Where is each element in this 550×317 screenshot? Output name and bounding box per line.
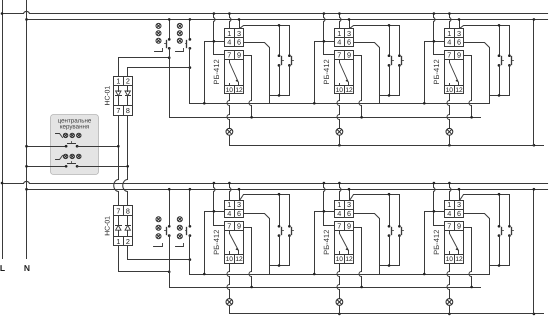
node switch common bar U6 bbox=[490, 265, 510, 267]
svg-text:10: 10 bbox=[336, 256, 344, 263]
wire L-bus drop to relay U1 pins 4/7 bbox=[214, 14, 225, 55]
wire A1 pin1 up to button wire bbox=[119, 58, 170, 77]
wire L-bus drop to relay U2 pins 4/7 bbox=[324, 14, 335, 55]
switch S6a contact bbox=[498, 225, 501, 228]
svg-text:10: 10 bbox=[226, 256, 234, 263]
net L left vertical rail bbox=[2, 1, 4, 259]
wire line1 bottom (control bus) bbox=[190, 274, 490, 276]
svg-text:1: 1 bbox=[337, 29, 341, 38]
switch S4b contact bbox=[288, 225, 291, 228]
svg-text:1: 1 bbox=[447, 200, 451, 209]
wire switch S6a vertical bbox=[499, 195, 501, 227]
wire relay U4 pin 10 to lamp bbox=[227, 264, 230, 299]
lamp HL3 bbox=[446, 128, 453, 135]
wire switch S5a vertical bbox=[389, 195, 391, 227]
lamp HL4 bbox=[226, 299, 233, 306]
wire A2 pin2 down to button wire 2 bbox=[128, 246, 190, 260]
svg-text:3: 3 bbox=[457, 29, 461, 38]
wire lamp HL4 to lamp rail bbox=[229, 306, 231, 314]
push button lamps column SB4 bottom bbox=[177, 217, 182, 239]
wire line2 bottom (buttons return bus) bbox=[170, 287, 481, 289]
wire L-bus drop to relay U3 pins 4/7 bbox=[434, 14, 445, 55]
svg-text:РБ-412: РБ-412 bbox=[322, 230, 331, 255]
wire B2 vertical to line1 bbox=[314, 42, 316, 104]
wire N-bus to relay U4 pin 3 bbox=[239, 190, 241, 201]
node junction pin4 feed U3 bbox=[425, 41, 445, 43]
svg-text:10: 10 bbox=[446, 87, 454, 94]
diode VD3 in A2 bbox=[116, 216, 122, 237]
wire L-bus to relay U2 pin 1 bbox=[340, 14, 341, 29]
wire A1 pin7 down to bottom block (V1) bbox=[114, 116, 119, 206]
block A1 НС-01 top bbox=[114, 77, 133, 116]
wire N-bus to relay U3 pin 3 bbox=[459, 20, 461, 29]
wire relay U2 pin 9 to line2 bbox=[354, 56, 362, 118]
central off push contact bbox=[27, 142, 119, 148]
svg-text:НС-01: НС-01 bbox=[104, 216, 111, 236]
label центральне керування bbox=[58, 117, 92, 130]
wire B5 vertical to line1 bbox=[314, 212, 316, 275]
relay U6 РБ-412 body bbox=[445, 201, 464, 264]
lamp rail bottom bbox=[230, 313, 544, 315]
wire L-bus to relay U5 pin 1 bbox=[340, 184, 341, 201]
wire relay U6 pin 6 to switch bar / line1 bbox=[464, 214, 490, 275]
wire pin3 branch to switches S6 bbox=[460, 195, 510, 227]
wire switch S1a vertical bbox=[279, 26, 281, 56]
relay U4 contact symbol bbox=[230, 231, 239, 255]
svg-text:7: 7 bbox=[227, 51, 231, 60]
switch S2b contact bbox=[398, 54, 401, 57]
relay U4 pin numbers bbox=[226, 200, 243, 263]
wire pin3 branch to switches S2 bbox=[350, 26, 400, 56]
svg-text:4: 4 bbox=[447, 38, 451, 47]
wire switches S5 to common bar bbox=[389, 236, 391, 266]
svg-text:РБ-412: РБ-412 bbox=[212, 59, 221, 84]
wire switches S4 to common bar bbox=[279, 236, 281, 266]
wire L-bus to relay U3 pin 1 bbox=[450, 14, 451, 29]
wire N-bus to relay U6 pin 3 bbox=[459, 190, 461, 201]
svg-text:1: 1 bbox=[337, 200, 341, 209]
svg-text:8: 8 bbox=[126, 206, 130, 215]
wire A2 pin1 down to button wire bbox=[119, 246, 170, 272]
relay U3 РБ-412 body bbox=[445, 29, 464, 94]
relay U6 contact symbol bbox=[450, 231, 459, 255]
node switch common bar U3 bbox=[490, 95, 510, 97]
svg-text:12: 12 bbox=[345, 87, 353, 94]
svg-text:12: 12 bbox=[235, 87, 243, 94]
svg-text:4: 4 bbox=[227, 38, 231, 47]
switch S5a contact bbox=[388, 225, 391, 228]
svg-text:7: 7 bbox=[337, 51, 341, 60]
relay U1 contact symbol bbox=[230, 60, 239, 86]
central on push contact bbox=[27, 162, 128, 168]
wire B6 vertical to line1 bbox=[424, 212, 426, 275]
svg-text:4: 4 bbox=[337, 38, 341, 47]
wire pin3 branch to switches S3 bbox=[460, 26, 510, 56]
svg-text:9: 9 bbox=[457, 221, 461, 230]
node junction pin4 feed U2 bbox=[315, 41, 335, 43]
node switch common bar U5 bbox=[380, 265, 400, 267]
svg-text:1: 1 bbox=[116, 77, 120, 86]
svg-text:9: 9 bbox=[347, 221, 351, 230]
wire bottom L-bus with hop over N rail bbox=[3, 181, 548, 183]
svg-text:12: 12 bbox=[455, 256, 463, 263]
svg-text:9: 9 bbox=[237, 221, 241, 230]
wire lamp HL1 to lamp rail bbox=[229, 136, 231, 146]
relay U5 contact symbol bbox=[340, 231, 349, 255]
relay U5 РБ-412 body bbox=[335, 201, 354, 264]
svg-text:6: 6 bbox=[457, 38, 461, 47]
svg-text:N: N bbox=[24, 263, 30, 273]
wire L-bus drop to relay U5 pins 4/7 bbox=[324, 184, 335, 226]
wire switch S3a vertical bbox=[499, 26, 501, 56]
svg-text:РБ-412: РБ-412 bbox=[322, 59, 331, 84]
wire relay U4 pin 6 to switch bar / line1 bbox=[244, 214, 270, 275]
svg-text:12: 12 bbox=[235, 256, 243, 263]
wire N-bus to relay U2 pin 3 bbox=[349, 20, 351, 29]
lamp rail top bbox=[230, 145, 544, 147]
switch S4a contact bbox=[278, 225, 281, 228]
svg-text:керування: керування bbox=[60, 124, 90, 131]
switch S1b contact bbox=[288, 54, 291, 57]
wire B1 vertical to line1 bbox=[204, 42, 206, 104]
wire relay U5 pin 6 to switch bar / line1 bbox=[354, 214, 380, 275]
wire L-bus drop to relay U6 pins 4/7 bbox=[434, 184, 445, 226]
wire L-bus drop to relay U4 pins 4/7 bbox=[214, 184, 225, 226]
diode VD2 in A1 bbox=[125, 86, 131, 106]
svg-text:2: 2 bbox=[126, 77, 130, 86]
wire B3 vertical to line1 bbox=[424, 42, 426, 104]
relay U4 РБ-412 body bbox=[225, 201, 244, 264]
svg-text:7: 7 bbox=[116, 106, 120, 115]
svg-text:6: 6 bbox=[457, 209, 461, 218]
svg-text:РБ-412: РБ-412 bbox=[432, 230, 441, 255]
wire relay U3 pin 6 to switch bar / line1 bbox=[464, 43, 490, 104]
svg-text:7: 7 bbox=[337, 221, 341, 230]
wire L-bus to relay U1 pin 1 bbox=[230, 14, 231, 29]
relay U1 РБ-412 body bbox=[225, 29, 244, 94]
svg-text:6: 6 bbox=[347, 209, 351, 218]
svg-text:7: 7 bbox=[116, 206, 120, 215]
switch S3a contact bbox=[498, 54, 501, 57]
wire N-bus to relay U1 pin 3 bbox=[239, 20, 241, 29]
svg-text:10: 10 bbox=[446, 256, 454, 263]
wire switches S3 to common bar bbox=[499, 66, 501, 96]
central control box (центральне керування) bbox=[51, 115, 99, 175]
wire relay U2 pin 6 to switch bar / line1 bbox=[354, 43, 380, 104]
push button SB2 wire and contact bbox=[176, 18, 192, 103]
svg-text:РБ-412: РБ-412 bbox=[212, 230, 221, 255]
wire pin3 branch to switches S1 bbox=[240, 26, 290, 56]
lamp HL1 bbox=[226, 128, 233, 135]
wire lamp HL5 to lamp rail bbox=[339, 306, 341, 314]
relay U2 contact symbol bbox=[340, 60, 349, 86]
svg-text:3: 3 bbox=[237, 200, 241, 209]
svg-text:НС-01: НС-01 bbox=[104, 86, 111, 106]
diode VD4 in A2 bbox=[125, 216, 131, 237]
svg-text:1: 1 bbox=[227, 29, 231, 38]
diode VD1 in A1 bbox=[116, 86, 122, 106]
wire relay U5 pin 9 to line2 bbox=[354, 228, 362, 288]
wire relay U6 pin 10 to lamp bbox=[447, 264, 450, 299]
wire relay U2 pin 10 to lamp bbox=[337, 94, 340, 129]
svg-text:2: 2 bbox=[126, 237, 130, 246]
relay U3 pin numbers bbox=[446, 29, 463, 94]
svg-text:3: 3 bbox=[347, 200, 351, 209]
switch S2a contact bbox=[388, 54, 391, 57]
svg-text:4: 4 bbox=[337, 209, 341, 218]
svg-text:8: 8 bbox=[126, 106, 130, 115]
wire bottom N-bus bbox=[27, 189, 548, 191]
wire A1 pin2 up to button wire 2 bbox=[128, 68, 190, 77]
wire L-bus to relay U6 pin 1 bbox=[450, 184, 451, 201]
wire lamp HL3 to lamp rail bbox=[449, 136, 451, 146]
wire top N-bus bbox=[27, 19, 548, 21]
switch S3b contact bbox=[508, 54, 511, 57]
wire relay U6 pin 9 to line2 bbox=[464, 228, 472, 288]
off-command symbol with indicators bbox=[56, 133, 82, 137]
relay U5 pin numbers bbox=[336, 200, 353, 263]
wire top L-bus with hop over N rail bbox=[3, 11, 548, 13]
wire switch S2a vertical bbox=[389, 26, 391, 56]
svg-text:3: 3 bbox=[457, 200, 461, 209]
svg-text:6: 6 bbox=[237, 209, 241, 218]
wire relay U3 pin 9 to line2 bbox=[464, 56, 472, 118]
wire L-bus to relay U4 pin 1 bbox=[230, 184, 231, 201]
svg-text:12: 12 bbox=[455, 87, 463, 94]
wire lamp HL2 to lamp rail bbox=[339, 136, 341, 146]
svg-text:РБ-412: РБ-412 bbox=[432, 59, 441, 84]
svg-text:10: 10 bbox=[336, 87, 344, 94]
svg-text:9: 9 bbox=[237, 51, 241, 60]
node junction pin4 feed U1 bbox=[205, 41, 225, 43]
lamp HL5 bbox=[336, 299, 343, 306]
wire pin3 branch to switches S5 bbox=[350, 195, 400, 227]
wire line2 top (buttons return bus) bbox=[170, 117, 481, 119]
svg-text:1: 1 bbox=[227, 200, 231, 209]
wire relay U1 pin 10 to lamp bbox=[227, 94, 230, 129]
wire relay U3 pin 10 to lamp bbox=[447, 94, 450, 129]
wire B4 vertical to line1 bbox=[204, 212, 206, 275]
svg-text:1: 1 bbox=[447, 29, 451, 38]
on-command symbol with indicators bbox=[56, 154, 82, 159]
relay U6 pin numbers bbox=[446, 200, 463, 263]
svg-text:10: 10 bbox=[226, 87, 234, 94]
wire switches S6 to common bar bbox=[499, 236, 501, 266]
node switch common bar U1 bbox=[270, 95, 290, 97]
svg-text:6: 6 bbox=[237, 38, 241, 47]
net N left vertical rail bbox=[26, 1, 28, 259]
svg-text:7: 7 bbox=[447, 221, 451, 230]
push button SB4 wire and contact bbox=[176, 188, 192, 275]
push button lamps column SB2 top bbox=[177, 23, 182, 43]
svg-text:4: 4 bbox=[447, 209, 451, 218]
wire A1 pin8 down to bottom block (V2) bbox=[123, 116, 128, 206]
wire pin3 branch to switches S4 bbox=[240, 195, 290, 227]
svg-text:9: 9 bbox=[457, 51, 461, 60]
wire relay U4 pin 9 to line2 bbox=[244, 228, 252, 288]
relay U1 pin numbers bbox=[226, 29, 243, 94]
node switch common bar U4 bbox=[270, 265, 290, 267]
wire switches S1 to common bar bbox=[279, 66, 281, 96]
wire relay U1 pin 9 to line2 bbox=[244, 56, 252, 118]
svg-text:3: 3 bbox=[237, 29, 241, 38]
wire N drop right side top bbox=[533, 20, 535, 146]
node junction pin4 feed U4 bbox=[205, 211, 225, 213]
node junction pin4 feed U6 bbox=[425, 211, 445, 213]
wire switches S2 to common bar bbox=[389, 66, 391, 96]
push button lamps column SB3 bottom bbox=[156, 217, 161, 239]
svg-text:9: 9 bbox=[347, 51, 351, 60]
svg-text:1: 1 bbox=[116, 237, 120, 246]
lamp HL2 bbox=[336, 128, 343, 135]
switch S5b contact bbox=[398, 225, 401, 228]
wire switch S4a vertical bbox=[279, 195, 281, 227]
push button lamps column SB1 top bbox=[156, 23, 161, 43]
svg-text:L: L bbox=[0, 263, 5, 273]
wire N drop right side bottom bbox=[533, 190, 535, 314]
svg-text:7: 7 bbox=[227, 221, 231, 230]
svg-text:7: 7 bbox=[447, 51, 451, 60]
wire line1 top (control bus) bbox=[190, 103, 490, 105]
svg-text:3: 3 bbox=[347, 29, 351, 38]
node switch common bar U2 bbox=[380, 95, 400, 97]
push button SB3 wire and contact bbox=[154, 188, 171, 288]
push button SB1 wire and contact bbox=[155, 18, 171, 117]
relay U2 pin numbers bbox=[336, 29, 353, 94]
switch S6b contact bbox=[508, 225, 511, 228]
switch S1a contact bbox=[278, 54, 281, 57]
block A2 НС-01 bottom bbox=[114, 206, 133, 247]
wire N-bus to relay U5 pin 3 bbox=[349, 190, 351, 201]
lamp HL6 bbox=[446, 299, 453, 306]
node junction pin4 feed U5 bbox=[315, 211, 335, 213]
svg-text:12: 12 bbox=[345, 256, 353, 263]
svg-text:6: 6 bbox=[347, 38, 351, 47]
relay U2 РБ-412 body bbox=[335, 29, 354, 94]
svg-text:4: 4 bbox=[227, 209, 231, 218]
wire lamp HL6 to lamp rail bbox=[449, 306, 451, 314]
relay U3 contact symbol bbox=[450, 60, 459, 86]
wire relay U5 pin 10 to lamp bbox=[337, 264, 340, 299]
wire relay U1 pin 6 to switch bar / line1 bbox=[244, 43, 270, 104]
